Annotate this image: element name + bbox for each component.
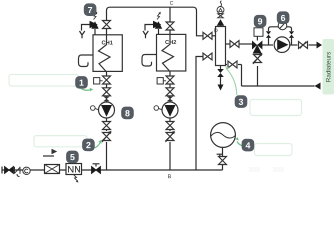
svg-text:4: 4 [245, 140, 250, 150]
svg-text:CH2: CH2 [165, 40, 176, 46]
svg-text:CH1: CH1 [102, 40, 113, 46]
svg-text:Radiateurs: Radiateurs [325, 52, 332, 82]
svg-text:3: 3 [239, 97, 244, 107]
svg-text:5: 5 [70, 152, 75, 162]
svg-text:6: 6 [281, 13, 286, 23]
svg-text:B: B [168, 174, 172, 180]
svg-text:9: 9 [258, 16, 263, 26]
svg-text:1: 1 [79, 78, 84, 88]
svg-text:7: 7 [88, 5, 93, 15]
svg-text:C: C [170, 1, 174, 7]
svg-text:2: 2 [86, 140, 91, 150]
svg-text:D: D [214, 28, 218, 34]
svg-text:8: 8 [125, 108, 130, 118]
